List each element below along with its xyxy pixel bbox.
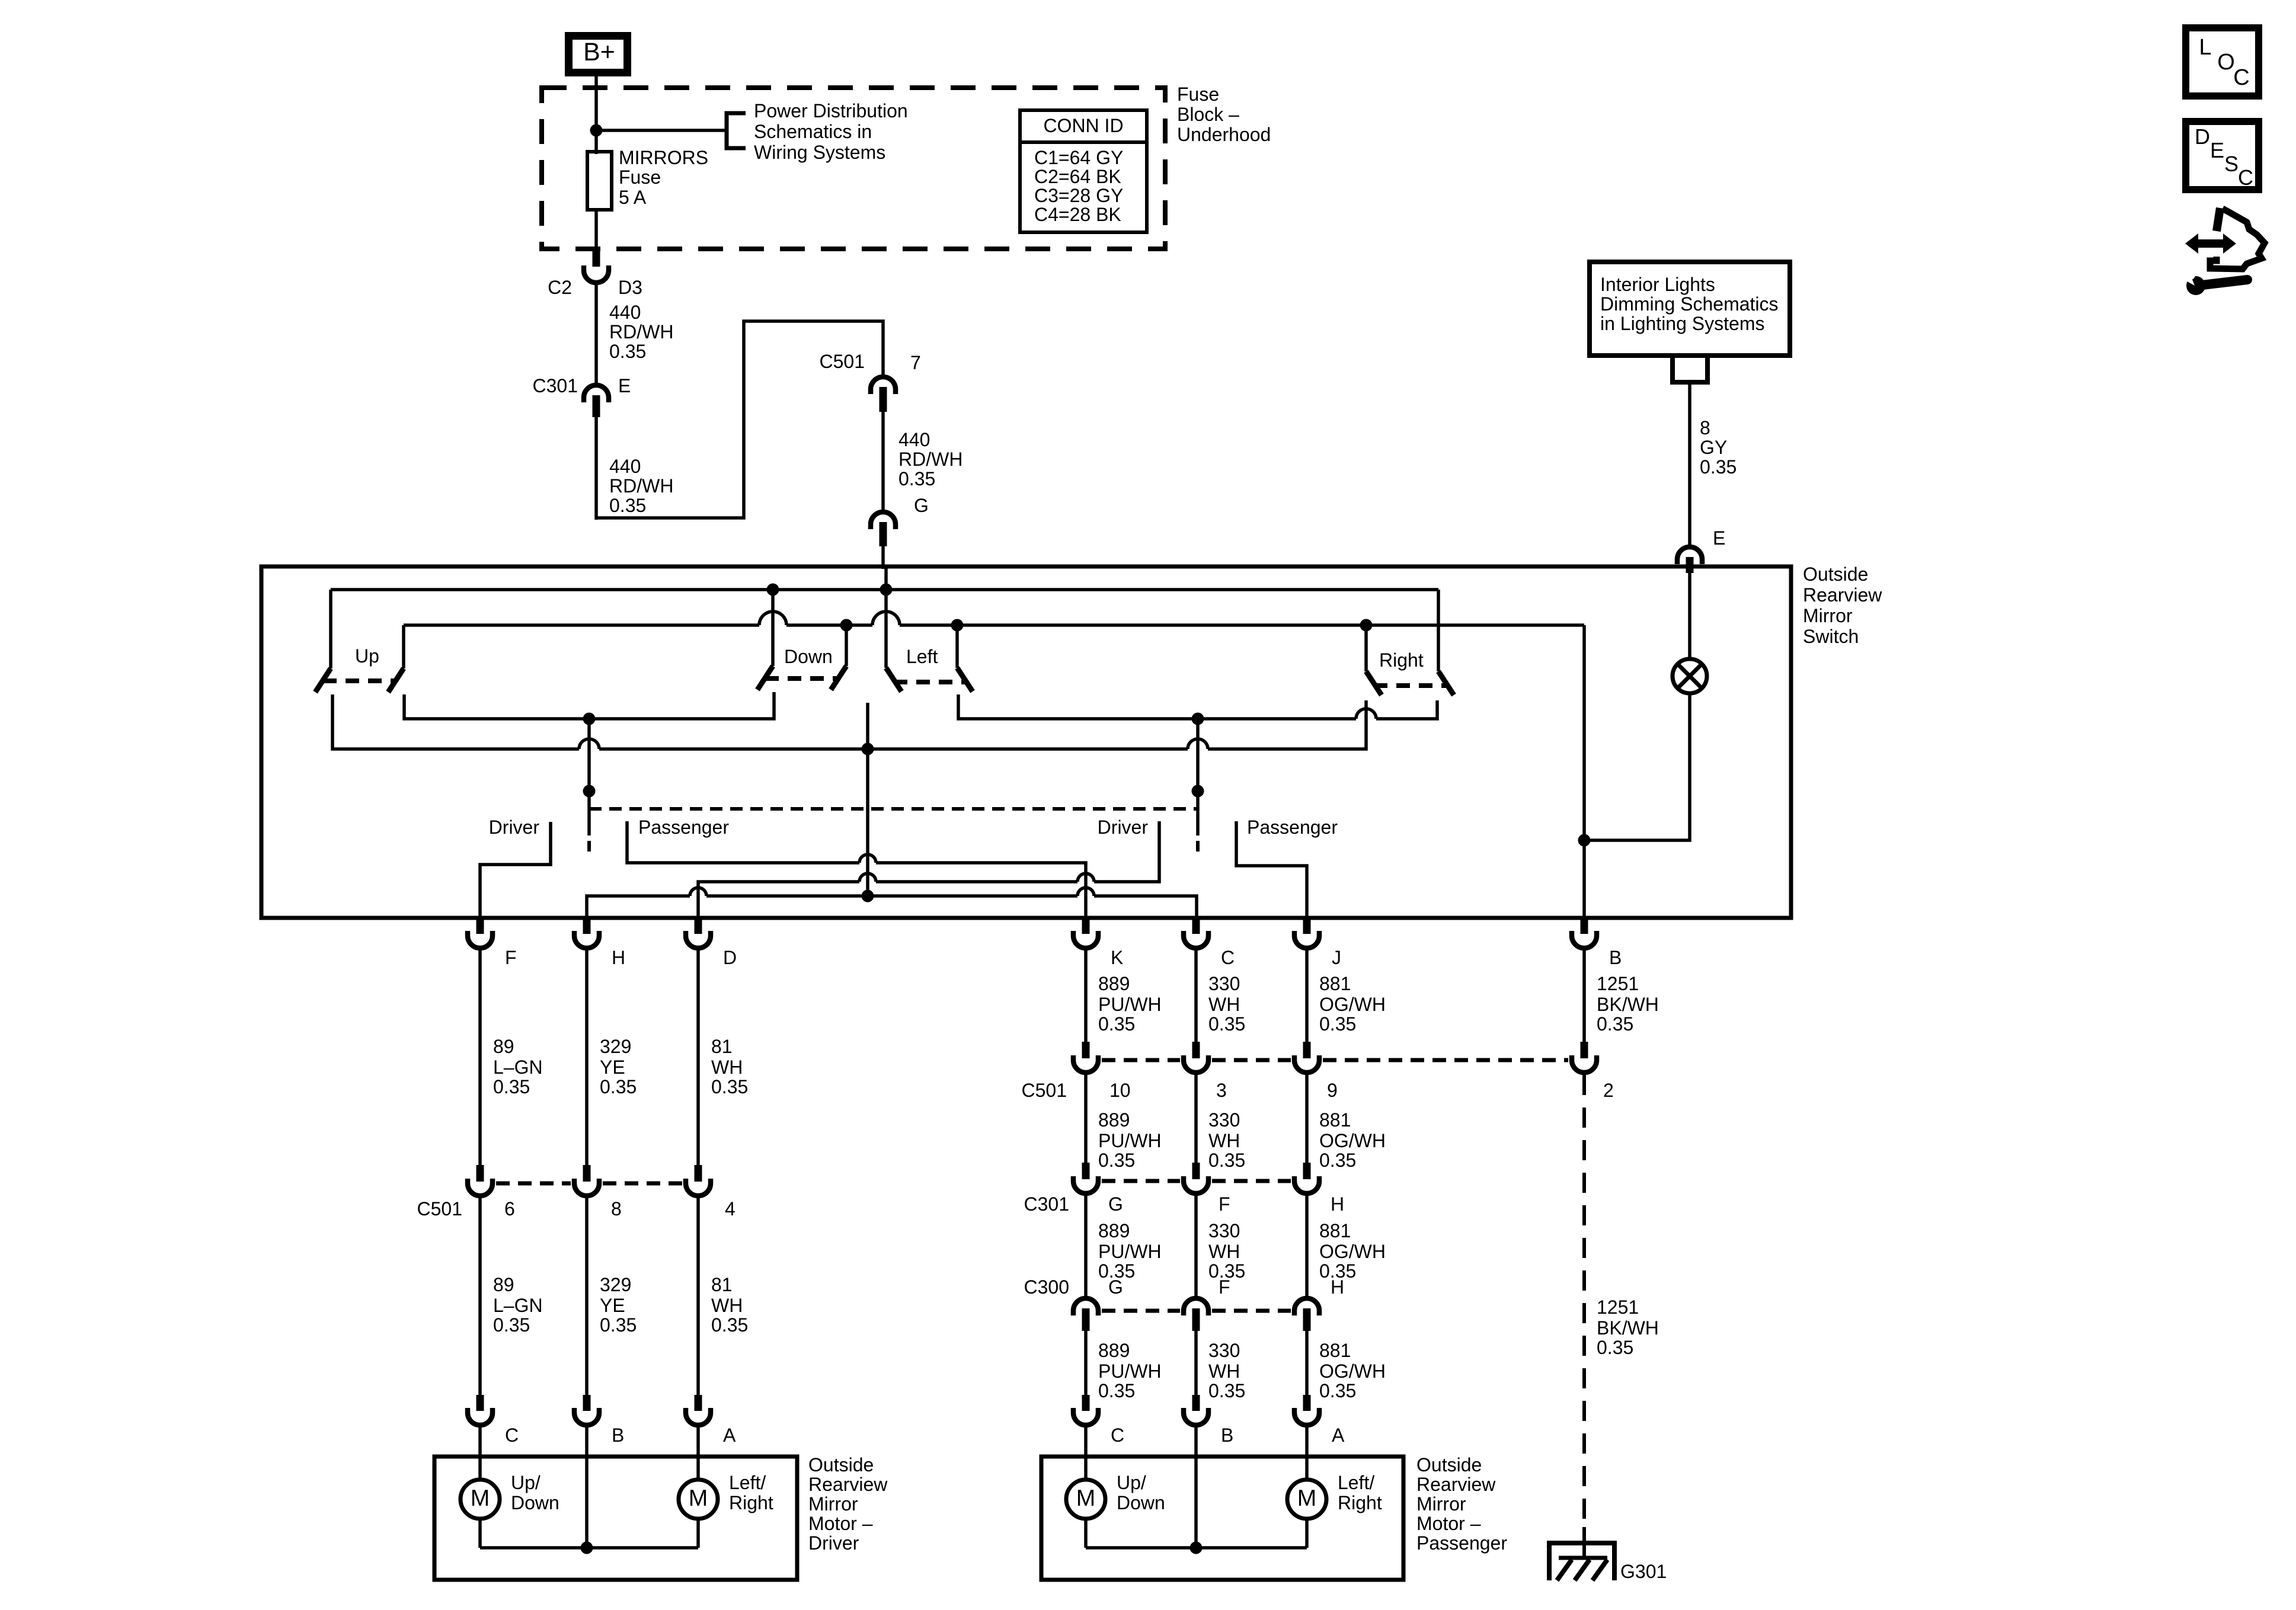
connector C501 right row pins 10 3 9 2 [1082,1042,1090,1058]
outside rearview mirror switch box [261,566,1791,918]
svg-text:Up: Up [355,645,379,667]
svg-text:B+: B+ [583,38,615,66]
svg-text:C: C [1221,947,1235,968]
svg-text:1251: 1251 [1597,1297,1639,1318]
svg-text:330: 330 [1208,973,1240,994]
svg-text:0.35: 0.35 [1208,1380,1245,1401]
svg-text:D: D [2195,124,2210,149]
selector linkage dashed [589,807,1198,811]
svg-text:Underhood: Underhood [1177,124,1271,145]
svg-text:Right: Right [1338,1492,1382,1513]
icon DESC box [2186,121,2259,190]
Right switch left blade [1366,671,1382,695]
Up switch left pole [329,590,332,668]
svg-text:J: J [1332,947,1341,968]
svg-text:Rearview: Rearview [808,1474,888,1495]
switch connector pin J [1303,918,1311,934]
svg-text:0.35: 0.35 [609,341,646,362]
icon LOC box [2186,28,2259,96]
dimming lamp wire from E [1688,569,1691,660]
Left switch left blade [886,668,901,692]
svg-text:C301: C301 [1024,1193,1070,1215]
svg-text:A: A [723,1425,736,1446]
svg-text:Motor –: Motor – [808,1513,873,1534]
wire 330 WH (to motor) [1194,1331,1198,1395]
svg-text:S: S [2224,152,2239,176]
svg-text:889: 889 [1098,1340,1130,1361]
wire fuse to connector C2 [594,210,598,249]
Up switch right blade [388,668,404,692]
Passenger select bracket (right) to pin J [1236,821,1307,918]
svg-text:Passenger: Passenger [1416,1532,1507,1554]
svg-text:Up/: Up/ [511,1472,541,1493]
node motor bus [1190,1542,1203,1554]
wire route up to C501 pin 7 [596,321,883,518]
svg-text:81: 81 [711,1274,733,1295]
svg-text:440: 440 [898,429,930,450]
motor M left/right [1287,1480,1326,1519]
svg-text:6: 6 [504,1198,515,1219]
svg-text:M: M [689,1486,708,1511]
svg-text:D3: D3 [618,277,642,298]
svg-text:WH: WH [1208,1361,1240,1382]
svg-text:889: 889 [1098,973,1130,994]
svg-text:Outside: Outside [1416,1454,1482,1475]
svg-text:329: 329 [600,1036,631,1057]
switch connector pin D [695,918,702,934]
Right switch right pole [1437,590,1440,671]
svg-text:330: 330 [1208,1220,1240,1241]
svg-text:Right: Right [1379,649,1424,671]
svg-text:in Lighting Systems: in Lighting Systems [1600,313,1764,334]
svg-text:B: B [1609,947,1622,968]
svg-text:Mirror: Mirror [1416,1493,1466,1515]
svg-text:E: E [1713,527,1725,549]
node: selector arm left on rail [583,713,596,725]
svg-text:MIRRORS: MIRRORS [619,147,708,168]
wire 330 WH [1194,950,1198,1042]
wire junction to fuse [594,130,598,154]
Up switch left blade [315,668,331,692]
wire 330 WH (to C300) [1194,1196,1198,1297]
node on rail2 at Right switch left pole [1360,619,1373,632]
wire 440 RD/WH 0.35 (C301 to C501) [594,417,598,520]
node on rail2 at Left switch right pole [951,619,964,632]
svg-text:L: L [2199,35,2211,60]
svg-text:H: H [1331,1193,1344,1215]
svg-text:Passenger: Passenger [1247,817,1338,838]
C501 dashed connector line (right) [1102,1058,1180,1062]
svg-text:C: C [2238,165,2253,190]
outside rearview mirror motor box passenger [1041,1457,1403,1580]
Passenger select jumper (left) to pin K [627,821,859,863]
svg-text:O: O [2217,50,2235,75]
svg-text:E: E [618,375,631,396]
svg-text:M: M [1076,1486,1096,1511]
svg-text:L–GN: L–GN [493,1057,543,1078]
svg-text:0.35: 0.35 [1319,1380,1356,1401]
svg-text:330: 330 [1208,1109,1240,1131]
wire 81 WH lower [696,1198,700,1395]
wire 329 YE lower [585,1198,589,1395]
svg-text:PU/WH: PU/WH [1098,1361,1162,1382]
svg-text:881: 881 [1319,1340,1351,1361]
svg-text:PU/WH: PU/WH [1098,1241,1162,1262]
svg-text:881: 881 [1319,1109,1351,1131]
svg-text:329: 329 [600,1274,631,1295]
svg-text:Rearview: Rearview [1803,584,1882,606]
motor common bus [1084,1519,1088,1548]
svg-text:2: 2 [1603,1080,1614,1101]
connector C301 row pins G F H [1082,1163,1090,1179]
svg-text:C4=28 BK: C4=28 BK [1034,204,1121,225]
connector C300 row pins G F H [1073,1298,1098,1315]
svg-text:0.35: 0.35 [1319,1150,1356,1171]
svg-text:330: 330 [1208,1340,1240,1361]
svg-text:CONN ID: CONN ID [1043,115,1123,136]
switch connector pin F [477,918,484,934]
rail2 drop to pin B [1582,625,1586,918]
wire 440 RD/WH 0.35 (C2 to C301) [594,284,598,383]
line C: pin H to pin C common [587,896,690,918]
svg-text:0.35: 0.35 [1098,1013,1135,1035]
svg-text:8: 8 [1700,417,1710,438]
svg-text:Outside: Outside [808,1454,874,1475]
svg-text:Mirror: Mirror [808,1493,858,1515]
svg-text:BK/WH: BK/WH [1597,1317,1659,1339]
svg-text:0.35: 0.35 [1098,1150,1135,1171]
svg-text:WH: WH [1208,1241,1240,1262]
svg-text:PU/WH: PU/WH [1098,1130,1162,1151]
svg-text:RD/WH: RD/WH [609,321,673,343]
node: selector arm right on rail [1192,713,1204,725]
svg-text:M: M [471,1486,490,1511]
Right switch left pole [1364,625,1368,671]
svg-text:E: E [2210,138,2224,162]
svg-text:OG/WH: OG/WH [1319,1130,1386,1151]
svg-text:C: C [2233,65,2249,90]
wire 1251 BK/WH dashed to G301 [1582,1075,1586,1527]
svg-text:G: G [914,495,929,516]
svg-text:F: F [505,947,517,968]
wire 881 OG/WH (to C301) [1305,1075,1309,1163]
wire 329 YE [585,950,589,1165]
svg-text:3: 3 [1216,1080,1227,1101]
svg-text:881: 881 [1319,1220,1351,1241]
svg-text:C3=28 GY: C3=28 GY [1034,185,1123,206]
svg-text:C: C [1111,1425,1124,1446]
svg-text:RD/WH: RD/WH [898,449,962,470]
svg-text:0.35: 0.35 [1208,1013,1245,1035]
svg-text:Down: Down [1117,1492,1165,1513]
Down switch linkage [765,676,838,681]
svg-text:Passenger: Passenger [638,817,729,838]
svg-text:C2=64 BK: C2=64 BK [1034,166,1121,187]
svg-text:440: 440 [609,456,641,477]
svg-text:PU/WH: PU/WH [1098,994,1162,1015]
fuse block underhood dashed box [542,88,1165,249]
svg-text:OG/WH: OG/WH [1319,1361,1386,1382]
svg-text:7: 7 [910,352,921,373]
svg-text:C501: C501 [417,1198,463,1219]
switch connector pin K [1082,918,1090,934]
svg-text:0.35: 0.35 [600,1076,637,1097]
icon: forward/reverse service wrench [2185,208,2265,295]
svg-text:G: G [1108,1193,1123,1215]
svg-text:Motor –: Motor – [1416,1513,1481,1534]
svg-text:Left: Left [906,646,938,667]
rail: second feed rail with bridges [404,623,759,627]
wire pin B to motor bus [585,1457,589,1548]
Down switch left blade [757,666,773,690]
wire 89 L&#8211;GN lower [478,1198,482,1395]
rail: Up-right / Down-left common (left segment) [404,692,774,719]
svg-text:F: F [1219,1276,1230,1298]
wire 889 PU/WH (to C301) [1084,1075,1088,1163]
interior lights dimming reference box [1590,262,1790,356]
svg-text:89: 89 [493,1036,514,1057]
Up switch linkage [323,678,396,683]
svg-text:K: K [1111,947,1123,968]
svg-text:H: H [612,947,625,968]
node motor bus [581,1542,593,1554]
svg-text:C301: C301 [533,375,578,396]
svg-text:F: F [1219,1193,1230,1215]
svg-text:WH: WH [711,1057,743,1078]
svg-text:BK/WH: BK/WH [1597,994,1659,1015]
motor common bus [478,1519,482,1548]
svg-text:Driver: Driver [489,817,540,838]
dimming lamp [1673,659,1707,693]
svg-text:Schematics in: Schematics in [754,121,872,142]
svg-text:9: 9 [1327,1080,1338,1101]
svg-text:0.35: 0.35 [493,1314,530,1336]
svg-text:A: A [1332,1425,1345,1446]
rail: Up-left / Right-left common (lower rail) [332,694,579,749]
svg-text:C501: C501 [1022,1080,1067,1101]
wire pin C to up/down motor [1084,1457,1088,1481]
wire 889 PU/WH [1084,950,1088,1042]
wire junction to power distribution bracket [596,129,727,132]
svg-text:Interior Lights: Interior Lights [1600,274,1715,295]
svg-text:Driver: Driver [808,1532,859,1554]
svg-text:1251: 1251 [1597,973,1639,994]
wire 881 OG/WH (to motor) [1305,1331,1309,1395]
svg-text:Outside: Outside [1803,564,1868,585]
Down switch right pole [845,625,848,666]
wire 440 RD/WH 0.35 (C501 to switch) [881,412,885,512]
wire 1251 BK/WH 0.35 [1582,950,1586,1042]
svg-text:0.35: 0.35 [711,1076,748,1097]
motor M up/down [461,1480,500,1519]
wire pin A to left/right motor [696,1457,700,1481]
node on rail2 at Down switch right pole [840,619,853,632]
svg-text:0.35: 0.35 [1597,1013,1633,1035]
svg-text:Left/: Left/ [1338,1472,1374,1493]
wire pin B to motor bus [1194,1457,1198,1548]
svg-text:Block –: Block – [1177,104,1239,125]
svg-text:GY: GY [1700,437,1727,458]
bracket: power distribution reference [727,113,746,148]
svg-text:WH: WH [1208,1130,1240,1151]
wire G into switch [884,566,888,590]
bracket below interior lights box [1673,356,1707,382]
Driver select jumper (right) to pin D [1094,821,1159,882]
ground G301 [1549,1543,1614,1580]
Left switch left pole [884,590,888,668]
svg-text:0.35: 0.35 [1597,1337,1633,1358]
svg-text:0.35: 0.35 [609,495,646,516]
svg-text:M: M [1297,1486,1317,1511]
switch connector pin H [583,918,591,934]
Up switch right pole [402,625,405,668]
svg-text:B: B [1221,1425,1233,1446]
svg-text:OG/WH: OG/WH [1319,994,1386,1015]
svg-text:H: H [1331,1276,1344,1298]
svg-text:Fuse: Fuse [1177,84,1219,105]
wire 889 PU/WH (to motor) [1084,1331,1088,1395]
svg-text:4: 4 [725,1198,736,1219]
Down switch right blade [831,666,846,690]
svg-text:81: 81 [711,1036,733,1057]
svg-text:0.35: 0.35 [493,1076,530,1097]
svg-text:C: C [505,1425,519,1446]
selector arm right (driver/passenger) [1196,719,1200,836]
svg-text:0.35: 0.35 [600,1314,637,1336]
svg-text:WH: WH [1208,994,1240,1015]
svg-text:Mirror: Mirror [1803,605,1853,626]
svg-text:C1=64 GY: C1=64 GY [1034,147,1123,168]
svg-text:Dimming Schematics: Dimming Schematics [1600,293,1779,315]
svg-text:0.35: 0.35 [1700,456,1737,478]
svg-text:G: G [1108,1276,1123,1298]
fuse MIRRORS 5 A [587,152,612,210]
rail: battery feed rail (upper) [331,588,1438,591]
battery feed B+ terminal [569,36,628,73]
svg-text:Fuse: Fuse [619,167,661,188]
passenger motor connector pins C B A [1082,1395,1090,1411]
svg-text:C501: C501 [820,351,865,372]
C301 dashed connector line [1102,1179,1180,1183]
node: B+ feed junction [590,124,603,137]
wire 8 GY 0.35 [1688,382,1691,545]
svg-text:Right: Right [729,1492,773,1513]
center fixed contact wire (Left switch) [866,703,869,896]
svg-text:5 A: 5 A [619,187,647,208]
node lamp/B junction [1578,834,1591,847]
connector C501 left row pins 6 8 4 [477,1165,484,1182]
driver motor connector pins C B A [477,1395,484,1411]
svg-text:89: 89 [493,1274,514,1295]
wire B+ to fuse block [594,76,598,133]
svg-text:Down: Down [784,646,833,667]
svg-text:WH: WH [711,1295,743,1316]
svg-text:YE: YE [600,1057,625,1078]
motor M up/down [1066,1480,1105,1519]
svg-text:Switch: Switch [1803,626,1859,647]
svg-text:0.35: 0.35 [1098,1380,1135,1401]
svg-text:D: D [723,947,737,968]
svg-text:OG/WH: OG/WH [1319,1241,1386,1262]
svg-text:Up/: Up/ [1117,1472,1146,1493]
svg-text:8: 8 [611,1198,622,1219]
Left switch right pole [955,625,959,668]
svg-text:G301: G301 [1620,1561,1667,1582]
wire pin A to left/right motor [1305,1457,1309,1481]
connector C2 terminal [584,265,609,283]
outside rearview mirror motor box driver [434,1457,797,1580]
wire 81 WH [696,950,700,1165]
svg-text:YE: YE [600,1295,625,1316]
svg-text:889: 889 [1098,1220,1130,1241]
wire 881 OG/WH (to C300) [1305,1196,1309,1297]
switch connector pin C [1192,918,1200,934]
Right switch right blade [1438,671,1454,695]
svg-text:0.35: 0.35 [1319,1013,1356,1035]
CONN ID table [1020,110,1147,232]
wire 881 OG/WH [1305,950,1309,1042]
svg-text:Down: Down [511,1492,559,1513]
svg-text:Driver: Driver [1098,817,1149,838]
motor M left/right [679,1480,718,1519]
Left switch linkage [894,680,965,684]
svg-text:Wiring Systems: Wiring Systems [754,142,885,163]
rail: Left-right / Right-right common (right segment) [958,694,1356,719]
wire lamp to pin B [1584,693,1690,840]
svg-text:RD/WH: RD/WH [609,475,673,497]
svg-text:Power Distribution: Power Distribution [754,100,908,121]
svg-text:B: B [612,1425,624,1446]
node: center contact to line C [862,890,874,902]
wire 330 WH (to C301) [1194,1075,1198,1163]
svg-text:0.35: 0.35 [1208,1150,1245,1171]
node on rail1 at Down switch [767,584,779,596]
svg-text:Left/: Left/ [729,1472,766,1493]
node: lower rail to center contact [862,743,874,756]
node on rail1 at Left switch [880,584,893,596]
svg-text:0.35: 0.35 [711,1314,748,1336]
svg-text:L–GN: L–GN [493,1295,543,1316]
wire pin C to up/down motor [478,1457,482,1481]
switch connector pin B [1581,918,1588,934]
svg-text:Rearview: Rearview [1416,1474,1496,1495]
selector arm left (driver/passenger) [587,719,591,836]
svg-text:10: 10 [1109,1080,1131,1101]
Left switch right blade [957,668,973,692]
wire 889 PU/WH (to C300) [1084,1196,1088,1297]
connector C2 pin D3 (male pin) [593,249,600,267]
svg-text:C2: C2 [548,277,572,298]
Driver select bracket (left) [480,822,551,918]
svg-text:0.35: 0.35 [898,468,935,489]
C501 dashed connector line (left) [496,1182,571,1186]
C300 dashed connector line [1102,1309,1180,1313]
Right switch linkage [1374,683,1446,688]
svg-text:881: 881 [1319,973,1351,994]
svg-text:440: 440 [609,302,641,323]
wire 89 L&#8211;GN [478,950,482,1165]
Down switch left pole [771,590,775,666]
svg-text:889: 889 [1098,1109,1130,1131]
svg-text:C300: C300 [1024,1276,1070,1298]
